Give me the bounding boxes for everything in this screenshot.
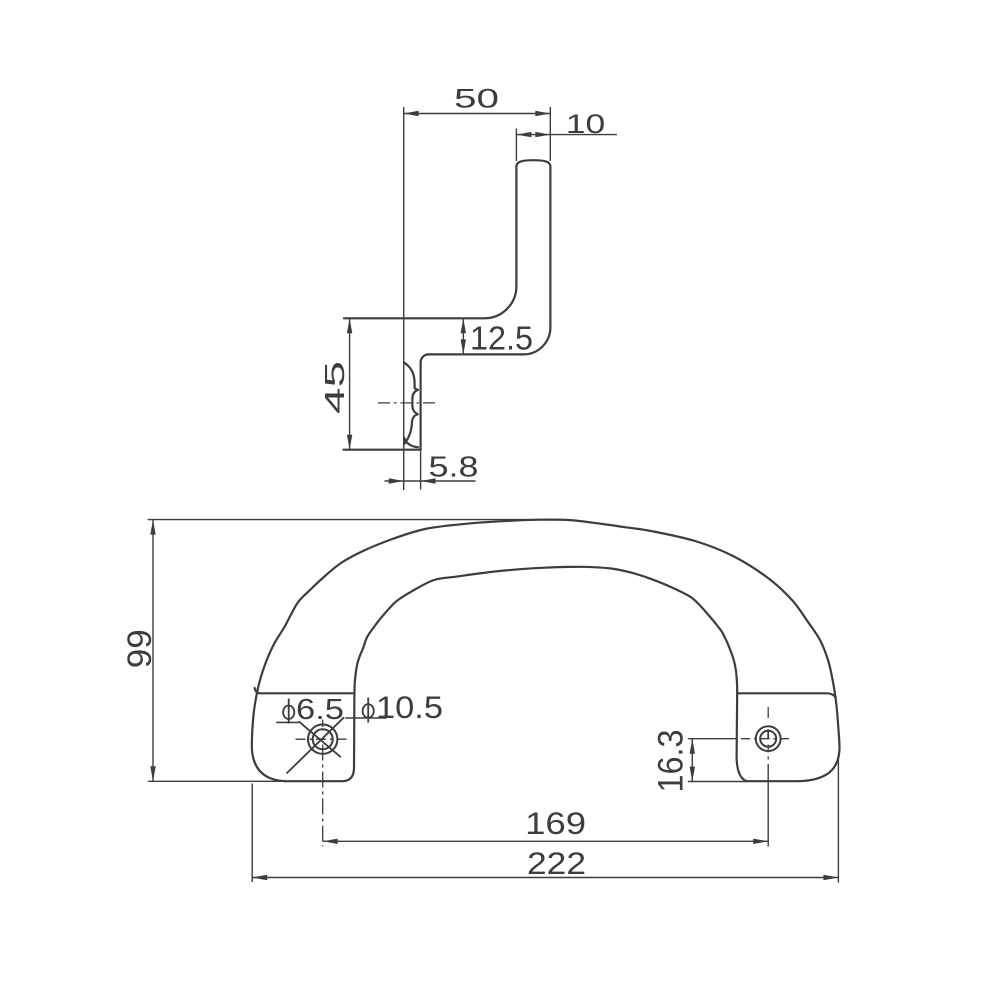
dimension 5.8 line bbox=[385, 480, 476, 482]
handle outer arch outline bbox=[252, 520, 840, 782]
left hole horizontal centerline bbox=[296, 738, 350, 740]
svg-text:50: 50 bbox=[454, 84, 499, 114]
leader line for phi 10.5 bbox=[345, 717, 386, 719]
right hole slot mark bbox=[767, 729, 769, 738]
svg-text:5.8: 5.8 bbox=[429, 452, 479, 484]
right hole vertical centerline above bbox=[767, 707, 769, 718]
right hole vertical centerline below bbox=[767, 745, 769, 763]
dimension 50 line bbox=[404, 113, 551, 115]
svg-text:10: 10 bbox=[566, 109, 606, 139]
foot front face upper arc bbox=[404, 363, 415, 389]
left foot bottom line (with 99-dim extension) bbox=[148, 780, 286, 782]
dimension 10 line bbox=[516, 134, 617, 136]
dimension 222 line bbox=[252, 877, 838, 879]
foot bottom line (with 45-dim extension) bbox=[344, 449, 421, 451]
foot bottom-front corner arc bbox=[404, 438, 418, 448]
dimension 169 extension right bbox=[767, 764, 769, 847]
foot right edge (side view) bbox=[420, 362, 422, 449]
left hole vertical centerline (down to 169 dim) bbox=[322, 745, 324, 847]
step top line (with 45-dim extension) bbox=[344, 317, 484, 319]
left hole vertical centerline tick above bbox=[322, 720, 324, 728]
left hole cross line A bbox=[299, 721, 341, 757]
svg-text:169: 169 bbox=[525, 805, 586, 841]
dimension 99 line bbox=[152, 520, 154, 782]
left hole cross line B bbox=[287, 717, 345, 773]
svg-text:6.5: 6.5 bbox=[296, 694, 344, 726]
foot break curve lower bbox=[412, 406, 417, 414]
dimension 99 extension top bbox=[148, 519, 542, 521]
left foot bottom edge bbox=[284, 780, 344, 782]
extension line left of 50 dim (x=403.7) bbox=[403, 107, 405, 490]
dimension 169 line bbox=[323, 840, 769, 842]
left hole outer circle (counterbore) bbox=[308, 725, 337, 754]
dimension 222 extension left bbox=[251, 784, 253, 883]
handle grip bar outline (side view) bbox=[516, 160, 550, 327]
right foot bottom line (16.3-dim extension) bbox=[688, 781, 746, 783]
extension line right of 5.8 dim bbox=[420, 450, 422, 490]
dimension 16.3 line bbox=[691, 739, 693, 782]
left foot top line bbox=[255, 688, 353, 693]
svg-text:10.5: 10.5 bbox=[376, 689, 443, 725]
svg-text:16.3: 16.3 bbox=[652, 730, 691, 793]
handle inner arch outline bbox=[343, 567, 747, 781]
foot front face lower arc bbox=[404, 416, 414, 444]
svg-text:222: 222 bbox=[527, 845, 586, 881]
svg-text:45: 45 bbox=[319, 361, 350, 414]
right foot top line bbox=[737, 693, 836, 697]
foot break tick upper bbox=[415, 388, 418, 390]
fillet bar-left to step top bbox=[484, 286, 516, 318]
dimension 45 line bbox=[349, 318, 351, 449]
extension line right of 50 dim (x=550.3) bbox=[549, 107, 551, 161]
label phi 6.5 symbol bbox=[283, 706, 294, 720]
dimension 222 extension right bbox=[837, 757, 839, 883]
extension line for 10 dim (bar left edge up) bbox=[515, 129, 517, 162]
dimension 12.5 line bbox=[462, 318, 464, 354]
right hole outer circle bbox=[756, 726, 781, 751]
right foot bottom edge bbox=[746, 780, 799, 782]
svg-text:99: 99 bbox=[121, 629, 159, 668]
svg-text:12.5: 12.5 bbox=[470, 320, 533, 357]
left hole inner circle bbox=[313, 729, 333, 749]
right hole horizontal centerline bbox=[741, 738, 792, 740]
label phi 10.5 symbol bbox=[363, 704, 374, 718]
foot break curve upper bbox=[412, 390, 418, 406]
foot break tick lower bbox=[414, 414, 417, 416]
leader line for phi 6.5 bbox=[276, 721, 298, 723]
fillet step bottom to foot right edge bbox=[421, 354, 429, 362]
fillet bar-right to step bottom bbox=[523, 327, 550, 354]
right hole inner circle bbox=[760, 731, 776, 747]
dimension 16.3 extension top bbox=[688, 738, 737, 740]
foot centerline (dash-dot) bbox=[378, 402, 437, 404]
step bottom line bbox=[429, 353, 524, 355]
